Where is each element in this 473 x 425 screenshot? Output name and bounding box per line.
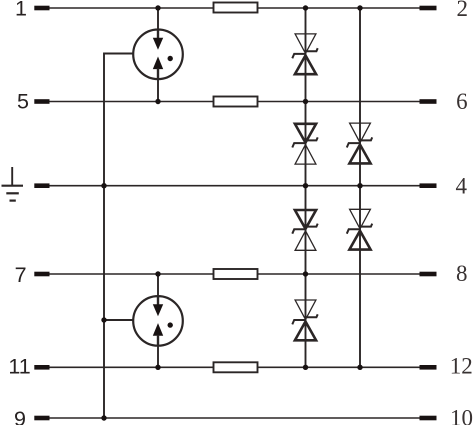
resistor R1 <box>214 3 258 13</box>
TVS diode V3 <box>347 123 372 163</box>
node line1-colB <box>357 5 362 10</box>
terminal 10 <box>420 416 437 421</box>
node line1-colA <box>303 5 308 10</box>
wire ground-4 <box>50 185 421 187</box>
node earth-colA <box>303 183 308 188</box>
terminal 8 <box>420 272 437 277</box>
wire line 9-10 <box>50 417 421 419</box>
svg-text:12: 12 <box>450 354 473 379</box>
wire line 11-12 <box>50 366 421 368</box>
wire line 7-8 <box>50 273 421 275</box>
terminal 5 <box>34 99 49 104</box>
terminal 12 <box>420 365 437 370</box>
wire earth bus vertical with top stub to F1 <box>104 54 133 419</box>
resistor R3 <box>214 269 258 279</box>
terminal earth <box>34 183 49 188</box>
terminal 2 <box>420 6 437 11</box>
node bus-F2stub <box>101 317 106 322</box>
node earth-bus <box>101 183 106 188</box>
node line7-F2 <box>155 271 160 276</box>
resistor R4 <box>214 362 258 372</box>
node line11-colA <box>303 365 308 370</box>
node line7-colA <box>303 271 308 276</box>
svg-text:6: 6 <box>456 89 468 114</box>
node line5-colA <box>303 99 308 104</box>
resistor R2 <box>214 97 258 107</box>
node line9-bus <box>101 415 106 420</box>
wire TVS column A <box>305 8 307 367</box>
node earth-colB <box>357 183 362 188</box>
wire F1 column <box>157 8 159 102</box>
TVS diode V6 <box>292 300 317 340</box>
node line5-F1 <box>155 99 160 104</box>
svg-text:1: 1 <box>15 0 27 21</box>
wire stub to F2 <box>104 319 133 321</box>
terminal 6 <box>420 99 437 104</box>
TVS diode V1 <box>292 34 317 74</box>
TVS diode V2 <box>292 124 317 164</box>
terminal 9 <box>34 416 49 421</box>
gas discharge tube F2 <box>133 296 183 346</box>
terminal 7 <box>34 272 49 277</box>
node line11-F2 <box>155 365 160 370</box>
node line11-colB <box>357 365 362 370</box>
svg-text:7: 7 <box>15 263 27 287</box>
node line1-F1 <box>155 5 160 10</box>
terminal 11 <box>34 365 49 370</box>
svg-text:8: 8 <box>456 261 468 286</box>
gas discharge tube F1 <box>133 30 183 80</box>
svg-text:10: 10 <box>450 406 473 425</box>
wire TVS column B <box>359 8 361 367</box>
terminal 4 <box>420 183 437 188</box>
svg-text:2: 2 <box>456 0 468 21</box>
TVS diode V4 <box>292 210 317 250</box>
wire line 5-6 <box>50 101 421 103</box>
terminal 1 <box>34 6 49 11</box>
TVS diode V5 <box>347 209 372 249</box>
svg-text:9: 9 <box>14 407 26 425</box>
svg-text:11: 11 <box>8 354 30 378</box>
svg-text:4: 4 <box>456 174 468 199</box>
ground <box>2 167 24 201</box>
svg-text:5: 5 <box>17 90 29 114</box>
wire F2 column <box>157 274 159 367</box>
wire line 1-2 <box>50 7 421 9</box>
